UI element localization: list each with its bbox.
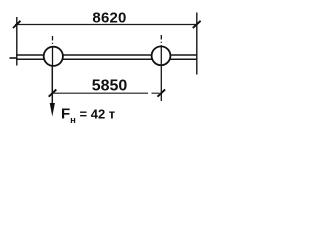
dimension 8620: right tick <box>193 21 201 28</box>
hole 1: centerline above <box>52 36 54 47</box>
hole 2: centerline through and below circle <box>160 47 162 101</box>
dimension 8620: left extension line <box>16 17 18 66</box>
hole 2: centerline above <box>160 35 162 47</box>
dimension 8620: right extension line <box>196 13 198 75</box>
svg-text:8620: 8620 <box>92 9 126 26</box>
dimension 5850: dimension line <box>53 92 141 94</box>
beam: left axis stub <box>10 57 17 59</box>
hole 2: circle <box>152 46 171 65</box>
hole 1: centerline through circle <box>52 47 54 66</box>
svg-text:Fн = 42 т: Fн = 42 т <box>61 105 115 126</box>
force arrow Fн: head <box>50 103 55 117</box>
dimension 5850: dashed right part <box>140 92 162 94</box>
force arrow Fн: shaft <box>51 66 53 106</box>
dimension 8620: dimension line <box>15 24 198 26</box>
beam: upper chord line <box>16 54 197 56</box>
dimension 5850: left tick <box>49 90 57 97</box>
hole 1: circle <box>44 47 63 66</box>
beam: lower chord line <box>16 58 197 60</box>
dimension 5850: right tick <box>158 90 166 97</box>
svg-text:5850: 5850 <box>92 78 128 95</box>
dimension 8620: left tick <box>13 21 21 28</box>
